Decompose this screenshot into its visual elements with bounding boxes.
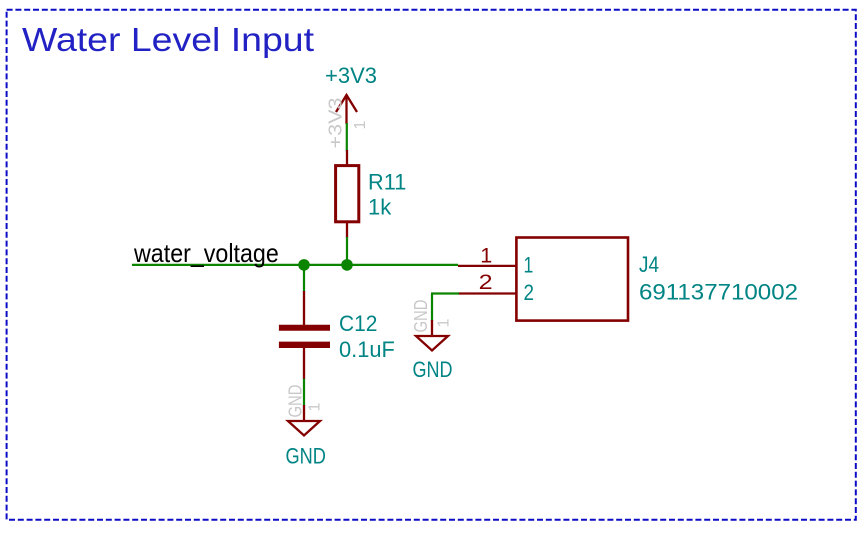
wire water_voltage horizontal [132, 264, 458, 266]
svg-text:1: 1 [307, 403, 324, 412]
svg-text:+3V3: +3V3 [325, 63, 377, 88]
svg-text:Water Level Input: Water Level Input [22, 21, 314, 58]
svg-text:GND: GND [411, 300, 431, 333]
pin 2 [458, 292, 516, 294]
junction at resistor branch [341, 259, 353, 271]
svg-text:GND: GND [286, 444, 326, 469]
svg-text:1: 1 [436, 319, 453, 328]
svg-text:+3V3: +3V3 [326, 98, 346, 149]
svg-text:GND: GND [286, 385, 306, 418]
wire junction to capacitor [303, 265, 305, 292]
resistor R11 [336, 150, 407, 238]
junction at capacitor branch [298, 259, 310, 271]
svg-text:1k: 1k [368, 195, 392, 220]
svg-text:1: 1 [352, 121, 369, 130]
svg-text:water_voltage: water_voltage [133, 238, 279, 268]
power symbol +3V3 [325, 63, 377, 149]
svg-text:GND: GND [413, 357, 453, 382]
svg-text:691137710002: 691137710002 [639, 280, 798, 305]
svg-text:C12: C12 [339, 311, 377, 336]
svg-text:R11: R11 [368, 169, 406, 194]
wire power to resistor [346, 123, 348, 151]
connector J4 [458, 238, 798, 321]
svg-text:2: 2 [524, 280, 535, 305]
svg-text:0.1uF: 0.1uF [339, 337, 395, 362]
svg-text:J4: J4 [639, 252, 659, 277]
ground symbol GND (below J4 pin 2) [411, 300, 453, 383]
wire capacitor to ground [303, 379, 305, 406]
capacitor C12 [279, 291, 395, 380]
ground symbol GND (below C12) [286, 385, 326, 469]
wire pin2 to ground, horizontal [431, 292, 459, 294]
wire pin2 to ground, vertical [431, 294, 433, 322]
svg-text:1: 1 [480, 245, 492, 268]
svg-text:2: 2 [479, 271, 493, 294]
pin 1 [458, 265, 516, 267]
svg-text:1: 1 [524, 253, 534, 278]
wire resistor to main bus [346, 237, 348, 265]
